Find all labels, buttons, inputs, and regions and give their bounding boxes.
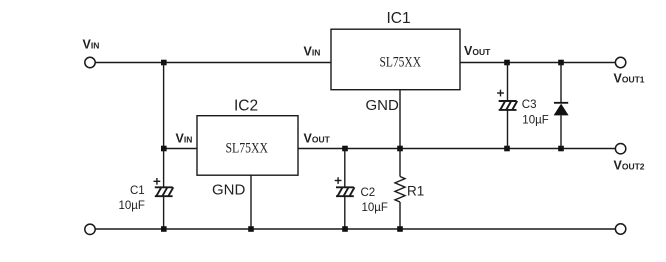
svg-text:C3: C3 — [522, 99, 537, 111]
svg-text:C1: C1 — [130, 185, 145, 197]
svg-text:GND: GND — [366, 97, 400, 114]
resistor R1 (x=400) — [395, 149, 405, 230]
svg-text:VOUT: VOUT — [304, 132, 331, 146]
node junction diode top (561,62.5) — [558, 60, 564, 66]
svg-text:GND: GND — [212, 182, 246, 199]
wire IC2 output rail to VOUT2 terminal — [298, 148, 616, 150]
wire vertical drop from VIN rail to IC2 input level — [163, 63, 165, 149]
node junction C3 bottom (507,148.5) — [504, 146, 510, 152]
svg-text:10µF: 10µF — [362, 202, 388, 214]
node junction R1 bottom (400,229) — [397, 226, 403, 232]
svg-text:C2: C2 — [361, 187, 376, 199]
terminal VIN (input, top-left) — [85, 57, 95, 67]
svg-text:VOUT2: VOUT2 — [614, 159, 645, 173]
svg-text:10µF: 10µF — [119, 200, 145, 212]
wire bottom common rail — [95, 228, 616, 230]
terminal common (bottom-right) — [615, 224, 625, 234]
node junction C3 top (507,62.5) — [504, 60, 510, 66]
node junction at (163,148.5) — [161, 146, 167, 152]
node junction on VIN rail (x=163) — [161, 60, 167, 66]
IC1 body — [331, 29, 460, 89]
node junction C2 top (345,148.5) — [342, 146, 348, 152]
svg-text:IC1: IC1 — [387, 10, 411, 27]
wire IC1 GND pin down to middle rail — [399, 90, 401, 149]
svg-text:VIN: VIN — [304, 45, 321, 59]
node junction C1 bottom (163,229) — [161, 226, 167, 232]
svg-text:10µF: 10µF — [522, 114, 548, 126]
terminal VOUT2 (right) — [615, 144, 625, 154]
wire IC1 output to VOUT1 terminal — [460, 62, 616, 64]
svg-text:VIN: VIN — [83, 38, 100, 52]
wire VIN rail (terminal to IC1 input) — [95, 62, 331, 64]
node junction R1 top (400,148.5) — [397, 146, 403, 152]
svg-text:VOUT: VOUT — [464, 44, 491, 58]
diode D1 (between VOUT1 rail and VOUT2 rail, x=561) — [554, 63, 569, 149]
terminal ground/common (bottom-left) — [85, 224, 95, 234]
terminal VOUT1 (top-right) — [615, 57, 625, 67]
node junction C2 bottom (345,229) — [342, 226, 348, 232]
node junction IC2 GND (251,229) — [248, 226, 254, 232]
capacitor C2 (electrolytic, x=345) — [335, 149, 355, 230]
svg-text:SL75XX: SL75XX — [226, 140, 269, 156]
svg-text:VOUT1: VOUT1 — [614, 72, 645, 86]
svg-text:R1: R1 — [407, 183, 424, 198]
wire IC2 input stub — [164, 148, 197, 150]
capacitor C1 (electrolytic, x=163) — [154, 149, 174, 230]
capacitor C3 (electrolytic, x=507.5) — [497, 63, 517, 149]
wire IC2 GND pin down to bottom rail — [250, 175, 252, 229]
svg-text:VIN: VIN — [176, 132, 193, 146]
IC2 body — [197, 116, 298, 176]
node junction diode bottom (561,148.5) — [558, 146, 564, 152]
svg-text:SL75XX: SL75XX — [380, 55, 422, 71]
svg-text:IC2: IC2 — [234, 98, 258, 115]
